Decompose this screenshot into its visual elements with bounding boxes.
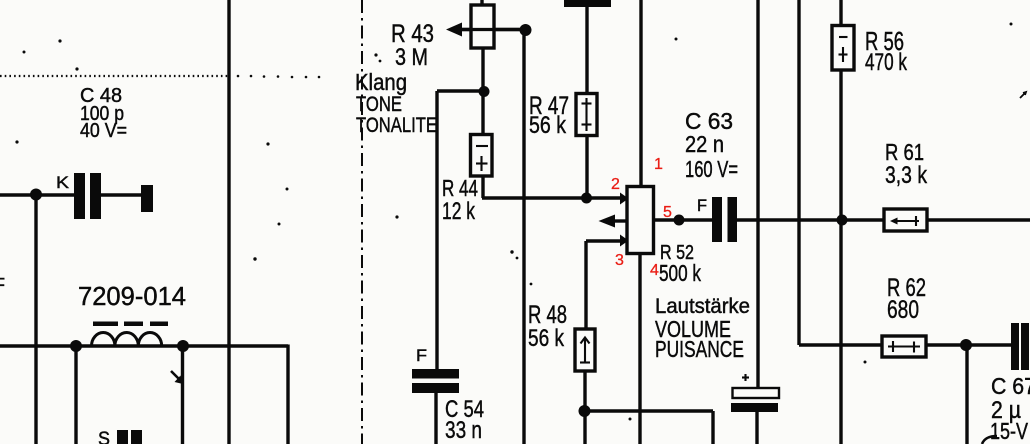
svg-text:33 n: 33 n <box>445 417 482 444</box>
svg-text:Lautstärke: Lautstärke <box>655 295 750 318</box>
svg-text:C 67: C 67 <box>991 373 1030 399</box>
svg-text:S: S <box>98 429 110 444</box>
svg-text:3: 3 <box>615 252 624 269</box>
svg-text:4: 4 <box>650 262 659 279</box>
svg-text:5: 5 <box>663 204 672 221</box>
svg-text:56 k: 56 k <box>529 112 567 139</box>
svg-text:TONALITE: TONALITE <box>356 114 437 137</box>
svg-text:500 k: 500 k <box>659 260 701 286</box>
svg-text:F: F <box>0 275 5 295</box>
svg-text:7209-014: 7209-014 <box>78 281 186 311</box>
svg-text:2: 2 <box>611 176 620 193</box>
svg-text:F: F <box>416 346 427 365</box>
svg-text:470 k: 470 k <box>865 49 908 76</box>
svg-text:3,3 k: 3,3 k <box>885 162 928 189</box>
svg-text:15-V: 15-V <box>990 418 1029 444</box>
svg-text:12 k: 12 k <box>442 198 476 225</box>
svg-text:56 k: 56 k <box>528 325 565 352</box>
svg-text:K: K <box>56 173 70 192</box>
svg-text:680: 680 <box>887 296 919 324</box>
svg-text:F: F <box>697 196 707 215</box>
svg-text:1: 1 <box>654 156 663 173</box>
svg-text:PUISANCE: PUISANCE <box>655 336 744 362</box>
svg-text:160 V=: 160 V= <box>685 156 738 182</box>
svg-text:Klang: Klang <box>355 69 407 95</box>
svg-text:TONE: TONE <box>356 93 402 116</box>
svg-text:3 M: 3 M <box>395 44 428 71</box>
svg-text:40 V=: 40 V= <box>80 120 127 142</box>
svg-text:22 n: 22 n <box>685 131 724 157</box>
